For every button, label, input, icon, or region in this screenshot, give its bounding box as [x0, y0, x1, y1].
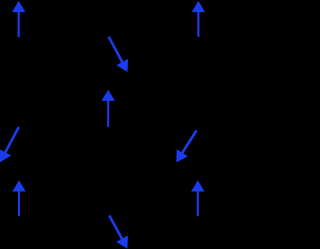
spin configuration diagram: 3x3 lattice of blue arrows on black [0, 0, 218, 249]
arrow spin 6 middle-right down-left [176, 131, 196, 163]
arrow spin 4 middle up [102, 90, 115, 127]
arrow spin 2 top-middle down-right [109, 37, 128, 72]
arrow spin 9 bottom-right up [191, 180, 204, 216]
arrow spin 1 top-left up [12, 1, 25, 37]
arrow spin 5 middle-left down-left [0, 127, 19, 162]
arrow spin 7 bottom-left up [12, 180, 25, 216]
arrow spin 3 top-right up [192, 1, 205, 37]
arrow spin 8 bottom-middle down-right [109, 216, 128, 249]
